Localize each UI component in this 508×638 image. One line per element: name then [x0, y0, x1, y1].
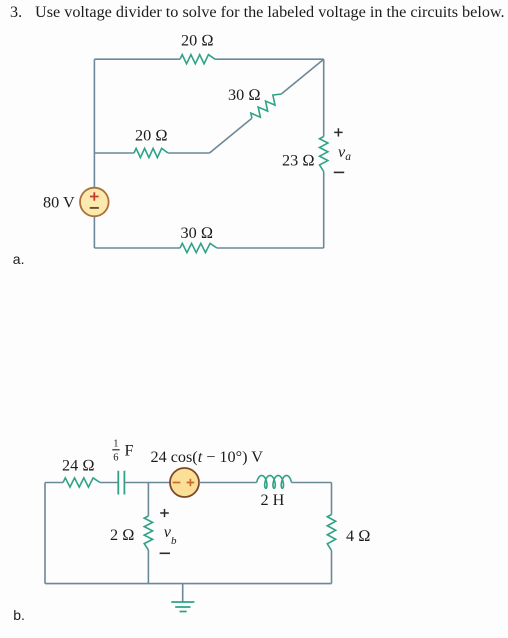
wire: left vertical lower	[93, 216, 95, 248]
ground	[171, 584, 194, 612]
capacitor C 1/6 F	[112, 439, 133, 495]
svg-text:2 Ω: 2 Ω	[110, 526, 135, 544]
source 24cos	[151, 448, 264, 497]
wire: middle horizontal left	[94, 152, 134, 154]
svg-text:vb: vb	[164, 523, 177, 547]
svg-text:va: va	[338, 143, 351, 163]
label vb polarity	[160, 509, 177, 553]
svg-text:F: F	[125, 442, 134, 460]
wire: bottom right segment	[217, 247, 324, 249]
resistor R 30ohm bottom	[180, 224, 217, 253]
svg-text:1: 1	[113, 439, 118, 450]
svg-text:4 Ω: 4 Ω	[346, 527, 371, 545]
wire: 2ohm branch lower	[147, 550, 149, 584]
wire: capacitor to source	[124, 482, 170, 484]
wire: right vertical upper	[331, 483, 333, 515]
wire: circuit a top-left segment	[94, 58, 180, 60]
svg-text:2 H: 2 H	[261, 491, 285, 509]
resistor R 20ohm top	[180, 32, 215, 64]
label va polarity	[334, 128, 351, 172]
wire: 24ohm to capacitor	[100, 482, 118, 484]
svg-text:80 V: 80 V	[43, 194, 75, 212]
resistor R 23ohm	[282, 137, 328, 172]
wire: left vertical b	[44, 483, 46, 584]
inductor L 2H	[257, 476, 292, 510]
wire: top right segment	[215, 58, 324, 60]
label b.	[13, 607, 25, 623]
source 80V	[43, 188, 109, 217]
svg-text:23 Ω: 23 Ω	[282, 152, 315, 170]
label a.	[13, 251, 25, 267]
resistor R 20ohm middle	[134, 127, 168, 158]
svg-text:20 Ω: 20 Ω	[135, 127, 168, 145]
svg-text:b.: b.	[13, 607, 25, 623]
svg-text:6: 6	[113, 453, 118, 464]
wire: 2ohm branch upper	[147, 483, 149, 517]
svg-text:20 Ω: 20 Ω	[181, 32, 214, 50]
resistor R 24ohm	[62, 457, 100, 488]
wire: diagonal lower segment	[210, 118, 252, 153]
wire: source to inductor	[199, 482, 257, 484]
wire: right vertical lower	[331, 551, 333, 584]
title	[10, 3, 505, 21]
svg-text:24 Ω: 24 Ω	[62, 457, 95, 475]
svg-text:24 cos(t − 10°) V: 24 cos(t − 10°) V	[151, 448, 264, 466]
wire: inductor to top-right corner	[292, 482, 332, 484]
svg-text:a.: a.	[13, 251, 25, 267]
wire: right vertical lower	[323, 172, 325, 249]
resistor R 30ohm diagonal	[228, 86, 281, 118]
wire: right vertical upper	[323, 59, 325, 136]
wire: left vertical upper	[93, 59, 95, 188]
svg-text:3.: 3.	[10, 3, 22, 21]
resistor R 4ohm	[327, 515, 370, 551]
resistor R 2ohm	[110, 516, 153, 550]
svg-text:30 Ω: 30 Ω	[228, 86, 261, 104]
wire: bottom left segment	[94, 247, 180, 249]
wire: middle horizontal right	[168, 152, 210, 154]
wire: b top-left segment	[45, 482, 63, 484]
svg-text:30 Ω: 30 Ω	[181, 224, 214, 242]
wire: bottom b	[45, 583, 332, 585]
svg-text:Use voltage divider to solve f: Use voltage divider to solve for the lab…	[35, 3, 505, 21]
wire: diagonal upper segment	[281, 59, 323, 94]
